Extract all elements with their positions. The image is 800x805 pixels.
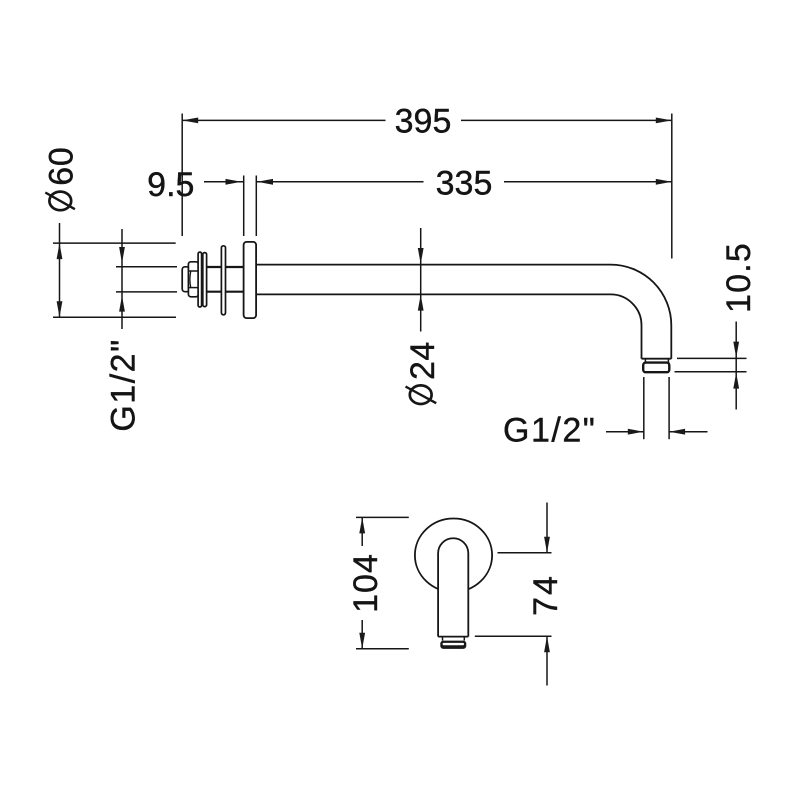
- arrowhead 9.5: [226, 179, 242, 185]
- outlet neck left: [644, 359, 646, 363]
- dimension line 104 lower: [361, 620, 363, 649]
- threaded pipe lower line: [188, 291, 244, 293]
- arrowhead 10.5 up: [733, 373, 739, 389]
- dimension line 10.5: [735, 322, 737, 410]
- shower arm tube outline: [256, 265, 671, 359]
- arrowhead 104 up: [359, 517, 365, 533]
- extension line G1/2 upper: [116, 266, 177, 268]
- front view neck right: [463, 637, 465, 641]
- arrowhead 74 up: [544, 636, 550, 652]
- extension line 74 top: [498, 552, 552, 554]
- svg-text:G1/2": G1/2": [105, 338, 143, 431]
- arrowhead 395 right: [656, 118, 672, 124]
- dimension line 395 left segment: [182, 119, 385, 121]
- svg-text:335: 335: [436, 165, 493, 203]
- diameter symbol of D60 label: [49, 192, 71, 211]
- threaded pipe upper line: [188, 266, 244, 268]
- extension line left of 395 dim: [181, 114, 183, 237]
- arrowhead 335 right: [656, 179, 672, 185]
- tube end line: [642, 358, 672, 360]
- dimension line 335 left segment: [257, 181, 424, 183]
- diameter symbol of D24 label: [410, 385, 432, 404]
- arrowhead D24 down: [418, 248, 424, 264]
- svg-text:9.5: 9.5: [147, 166, 194, 204]
- arrowhead D24 up: [418, 295, 424, 311]
- diameter symbol slash of D24 label: [406, 387, 437, 404]
- shower arm tube inner line: [256, 294, 641, 358]
- front view neck left: [442, 637, 444, 641]
- arrowhead 395 left: [182, 118, 198, 124]
- arrowhead D60 bottom: [57, 301, 63, 317]
- wall flange: [244, 242, 257, 318]
- svg-text:60: 60: [42, 146, 80, 185]
- outlet collar: [643, 363, 669, 373]
- svg-text:10.5: 10.5: [720, 242, 758, 313]
- arrowhead D60 top: [57, 243, 63, 259]
- pipe end cap: [182, 267, 189, 292]
- dimension line 335 right segment: [504, 181, 672, 183]
- extension line G1/2 lower: [116, 291, 177, 293]
- arrowhead outlet G1/2 left: [628, 429, 644, 435]
- svg-text:104: 104: [347, 553, 385, 613]
- back plate: [221, 246, 225, 315]
- front view collar: [440, 641, 466, 649]
- outlet neck right: [667, 359, 669, 363]
- dimension line 395 right segment: [461, 119, 672, 121]
- extension line 9.5 left: [243, 176, 245, 237]
- svg-text:395: 395: [395, 103, 452, 141]
- svg-text:24: 24: [404, 341, 442, 380]
- dimension line G1/2 left: [121, 229, 123, 329]
- extension line 104 bottom: [356, 648, 409, 650]
- front view collar groove: [443, 643, 464, 645]
- arrowhead outlet G1/2 right: [669, 429, 685, 435]
- front view tube: [438, 538, 468, 636]
- arrowhead 335 left: [257, 179, 273, 185]
- leader line 9.5: [204, 181, 244, 183]
- dimension line 74 lower: [546, 636, 548, 685]
- hex nut bevel upper: [189, 270, 198, 272]
- diameter symbol slash of D60 label: [45, 193, 75, 210]
- extension line 74 bottom: [475, 635, 552, 637]
- washer 2: [203, 253, 207, 307]
- arrowhead 74 down: [544, 537, 550, 553]
- dimension line D60: [59, 223, 61, 317]
- arrowhead G1/2 left lower: [119, 296, 125, 312]
- dimension line D24: [420, 228, 422, 332]
- hex nut: [188, 262, 198, 297]
- dimension line 74 upper: [546, 503, 548, 553]
- extension line outlet G1/2 left: [643, 377, 645, 439]
- extension line 10.5 upper: [677, 357, 747, 359]
- hex nut facet arc: [189, 271, 192, 288]
- extension line outlet G1/2 right: [668, 377, 670, 439]
- arrowhead 104 down: [359, 633, 365, 649]
- extension line right of 395/335 dims: [671, 114, 673, 259]
- arrowhead 10.5 down: [733, 342, 739, 358]
- hex nut bevel lower: [189, 287, 198, 289]
- extension line D60 bottom: [53, 316, 176, 318]
- svg-text:G1/2": G1/2": [503, 412, 596, 450]
- front view tube end line: [438, 636, 468, 638]
- dimension line 104 upper: [361, 517, 363, 546]
- dimension line outlet G1/2 left segment: [606, 431, 644, 433]
- dimension line outlet G1/2 right segment: [669, 431, 707, 433]
- extension line 104 top: [356, 516, 409, 518]
- extension line 9.5 right: [255, 176, 257, 237]
- extension line D60 top: [53, 242, 176, 244]
- svg-text:74: 74: [527, 574, 565, 616]
- extension line 10.5 lower: [675, 371, 747, 373]
- arrowhead G1/2 left upper: [119, 247, 125, 263]
- washer 1: [198, 252, 202, 307]
- front view flange circle: [415, 519, 492, 592]
